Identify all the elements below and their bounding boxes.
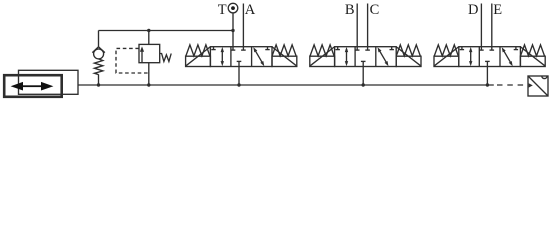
svg-text:D: D <box>468 2 478 18</box>
svg-text:B: B <box>345 2 355 18</box>
svg-text:A: A <box>245 2 256 18</box>
svg-text:C: C <box>370 2 380 18</box>
svg-text:E: E <box>493 2 502 18</box>
svg-text:T: T <box>218 2 227 18</box>
